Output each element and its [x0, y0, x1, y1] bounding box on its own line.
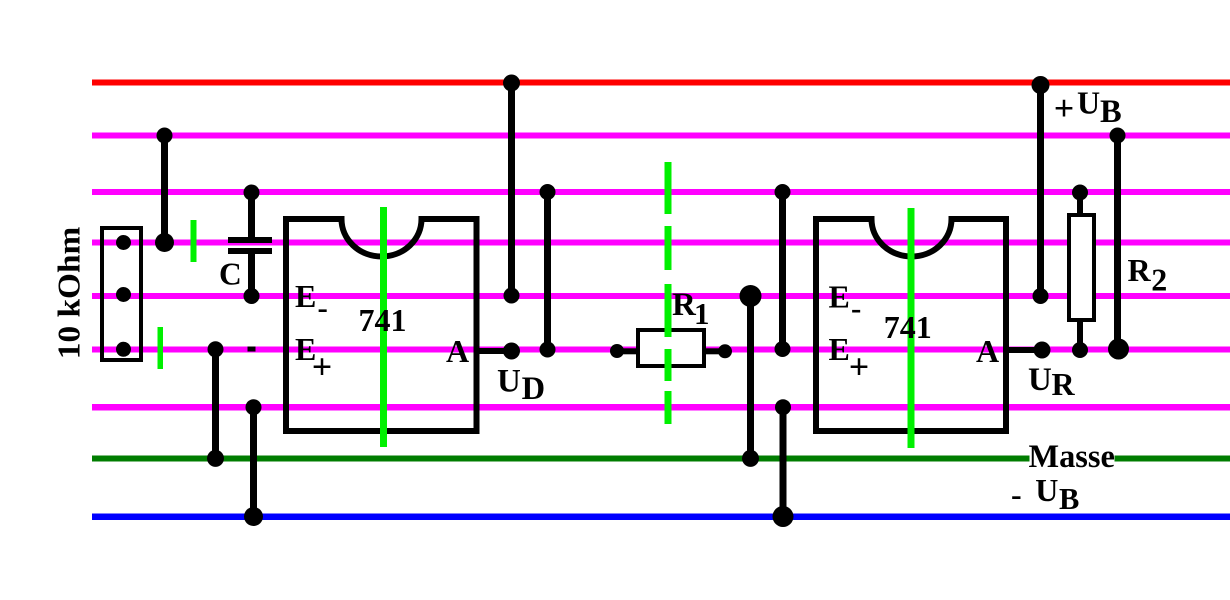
resistor R2 bottom lead: [1077, 320, 1083, 350]
junction dot row4 big: [740, 285, 762, 307]
junction dot row4 right: [1033, 288, 1049, 304]
signal rail row3 (magenta): [92, 240, 1230, 246]
svg-text:2: 2: [1151, 262, 1167, 298]
green tick near potentiometer: [158, 327, 164, 369]
green dashed line segment 4: [665, 349, 672, 381]
svg-text:C: C: [219, 257, 242, 292]
op-amp U1 output stub: [476, 348, 512, 354]
svg-text:741: 741: [884, 309, 932, 345]
potentiometer pin dot middle: [116, 287, 131, 302]
wire row2 to row5: [544, 192, 551, 350]
junction dot -UB big: [773, 506, 794, 527]
-UB supply rail (blue): [92, 514, 1230, 521]
signal rail row5 (magenta): [92, 347, 1230, 353]
junction dot U1 output: [503, 343, 520, 360]
capacitor C plate bottom: [228, 248, 272, 254]
junction dot row1: [157, 128, 173, 144]
signal rail row1 (magenta): [92, 133, 1230, 139]
junction dot R2 top row2: [1072, 185, 1088, 201]
junction dot row2: [540, 184, 556, 200]
green dashed line segment 5: [665, 391, 672, 424]
wire row2 to row5 (second): [779, 192, 786, 349]
junction dot row4: [504, 288, 520, 304]
junction dot U2 output: [1034, 342, 1051, 359]
resistor R2 top lead: [1077, 193, 1083, 216]
svg-text:U: U: [1028, 362, 1052, 398]
svg-text:+: +: [1054, 88, 1075, 128]
svg-text:U: U: [1077, 85, 1100, 121]
signal rail row4 (magenta): [92, 293, 1230, 299]
svg-text:741: 741: [359, 302, 407, 338]
junction dot Masse: [742, 450, 759, 467]
resistor R1 right lead: [704, 348, 726, 354]
green probe line through U2: [908, 208, 915, 448]
junction dot cap bottom row4: [244, 288, 260, 304]
wire row6 to -UB (second): [780, 407, 787, 516]
junction dot row2: [775, 184, 791, 200]
svg-text:E: E: [829, 279, 850, 315]
signal rail row2 (magenta): [92, 189, 1230, 195]
svg-text:-: -: [851, 291, 861, 326]
capacitor C plate top: [228, 237, 272, 243]
junction dot R2 bottom row5: [1072, 342, 1088, 358]
svg-text:U: U: [1035, 472, 1058, 508]
wire row1 to row5 (R2 right): [1114, 136, 1121, 350]
green dashed line segment 1: [665, 162, 672, 214]
potentiometer pin dot top: [116, 235, 131, 250]
svg-text:-: -: [318, 290, 328, 325]
svg-text:B: B: [1059, 482, 1079, 516]
junction dot row5 big: [1108, 339, 1129, 360]
green probe line through U1: [380, 207, 387, 447]
capacitor C lead top: [248, 193, 255, 238]
resistor R1 terminal dot right: [718, 344, 732, 358]
svg-text:1: 1: [694, 296, 710, 331]
svg-text:B: B: [1100, 94, 1122, 130]
wire +UB to row4: [508, 83, 515, 296]
junction dot row3: [155, 233, 174, 252]
minus polarity mark: [248, 347, 256, 352]
junction dot row5: [540, 342, 556, 358]
signal rail row6 (magenta): [92, 404, 1230, 411]
svg-text:+: +: [849, 346, 870, 386]
svg-text:10 kOhm: 10 kOhm: [52, 227, 87, 360]
wire +UB to row4 (right): [1037, 84, 1044, 296]
svg-text:U: U: [497, 364, 521, 400]
svg-text:A: A: [446, 333, 469, 369]
svg-text:-: -: [1011, 476, 1022, 512]
junction dot row5: [775, 341, 791, 357]
wire row1 to row3: [161, 136, 168, 243]
junction dot row6: [775, 399, 791, 415]
svg-text:E: E: [295, 278, 316, 314]
resistor R1 left lead: [617, 348, 639, 354]
svg-text:E: E: [829, 331, 850, 367]
junction dot red rail right: [1032, 76, 1050, 94]
junction dot row5: [208, 341, 224, 357]
green tick near capacitor: [191, 220, 197, 262]
junction dot Masse: [207, 450, 224, 467]
label Masse white backing: [1030, 447, 1115, 469]
svg-text:A: A: [976, 333, 999, 369]
potentiometer 10 kOhm body: [102, 228, 141, 360]
green dashed line segment 3: [665, 284, 672, 337]
junction dot row6: [246, 399, 262, 415]
junction dot red rail: [503, 75, 520, 92]
svg-text:R: R: [1128, 252, 1152, 288]
op-amp U1 741 body with notch: [286, 219, 477, 431]
potentiometer pin dot bottom: [116, 342, 131, 357]
resistor R1 terminal dot left: [610, 344, 624, 358]
green dashed line segment 2: [665, 226, 672, 270]
op-amp U2 741 body with notch: [816, 219, 1006, 431]
junction dot cap top row2: [244, 185, 260, 201]
+UB supply rail (red): [92, 80, 1230, 86]
capacitor C lead bottom: [248, 254, 255, 296]
wire row6 to -UB: [250, 407, 257, 516]
wire row4 to Masse: [747, 296, 754, 458]
svg-text:+: +: [312, 346, 333, 386]
junction dot -UB: [244, 507, 263, 526]
op-amp U2 output stub: [1006, 347, 1042, 353]
svg-text:D: D: [522, 371, 545, 407]
svg-text:Masse: Masse: [1029, 439, 1115, 475]
resistor R2 body: [1069, 215, 1094, 320]
Masse ground rail (dark green): [92, 456, 1230, 462]
svg-text:R: R: [1052, 366, 1076, 402]
wire row5 to Masse: [212, 349, 219, 458]
resistor R1 body: [638, 330, 704, 366]
junction dot row1: [1110, 128, 1126, 144]
